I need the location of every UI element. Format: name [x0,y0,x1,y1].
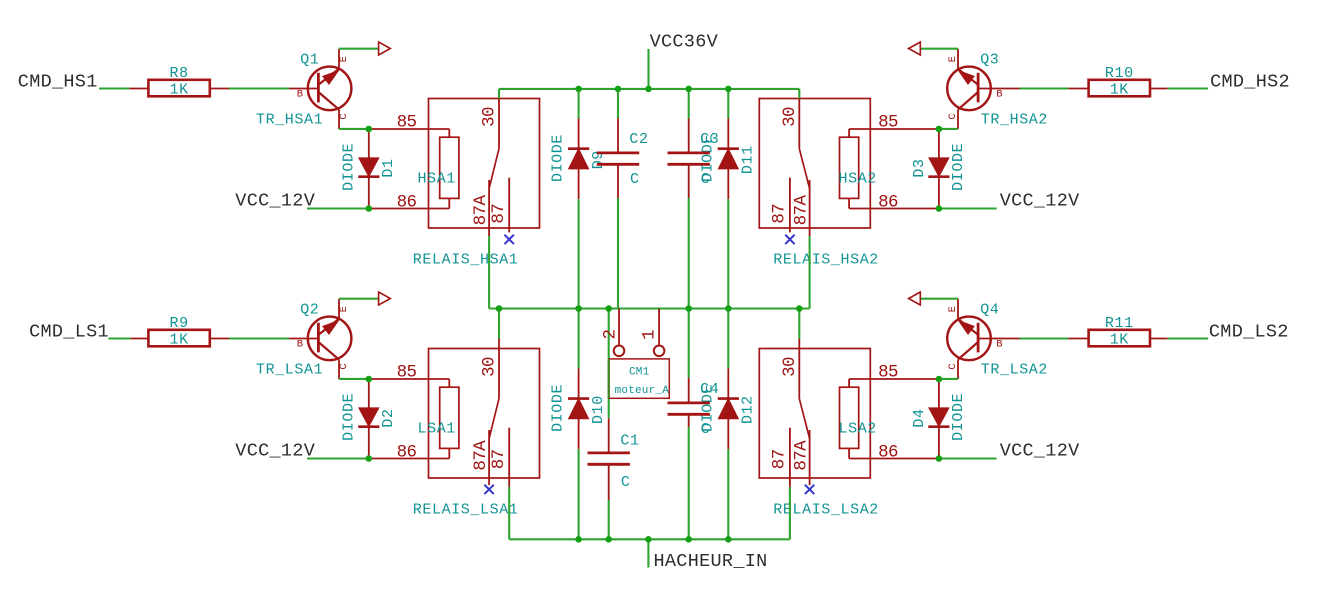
svg-text:D12: D12 [740,395,757,424]
svg-text:B: B [297,89,303,101]
svg-text:C2: C2 [629,131,648,148]
svg-text:VCC_12V: VCC_12V [235,441,315,462]
svg-text:B: B [996,89,1002,101]
svg-text:DIODE: DIODE [950,393,967,441]
svg-text:C: C [947,113,959,119]
svg-text:C4: C4 [700,381,719,398]
svg-text:C: C [630,171,640,188]
svg-text:TR_LSA2: TR_LSA2 [981,362,1048,379]
svg-text:DIODE: DIODE [340,393,357,441]
svg-text:VCC_12V: VCC_12V [235,191,315,212]
svg-text:1K: 1K [1110,81,1129,98]
svg-text:C1: C1 [620,433,639,450]
svg-text:HACHEUR_IN: HACHEUR_IN [654,551,768,572]
svg-text:85: 85 [878,113,898,133]
svg-text:E: E [338,56,350,62]
svg-text:E: E [947,306,959,312]
svg-text:TR_LSA1: TR_LSA1 [256,362,323,379]
svg-text:moteur_A: moteur_A [615,385,670,397]
svg-text:86: 86 [397,193,417,213]
svg-text:R10: R10 [1105,65,1134,82]
svg-text:R9: R9 [169,315,188,332]
svg-text:D1: D1 [380,158,397,177]
svg-text:85: 85 [397,113,417,133]
svg-text:C: C [621,474,631,491]
svg-text:R8: R8 [169,65,188,82]
svg-text:HSA2: HSA2 [839,171,877,188]
svg-text:VCC36V: VCC36V [650,32,718,53]
svg-text:CMD_LS1: CMD_LS1 [29,321,109,342]
svg-text:RELAIS_HSA2: RELAIS_HSA2 [773,251,879,268]
svg-text:1: 1 [639,330,659,340]
svg-text:1K: 1K [169,81,188,98]
svg-text:VCC_12V: VCC_12V [1000,191,1080,212]
svg-text:87: 87 [770,449,790,469]
svg-text:87: 87 [770,204,790,224]
svg-text:B: B [297,339,303,351]
svg-text:C: C [338,113,350,119]
svg-text:86: 86 [878,443,898,463]
svg-text:D3: D3 [911,158,928,177]
svg-text:Q4: Q4 [980,301,999,318]
svg-text:TR_HSA1: TR_HSA1 [256,112,323,129]
svg-text:Q2: Q2 [300,301,319,318]
svg-text:87A: 87A [792,440,812,471]
svg-text:87: 87 [489,204,509,224]
svg-text:E: E [947,56,959,62]
svg-text:RELAIS_LSA1: RELAIS_LSA1 [413,501,519,518]
svg-text:87A: 87A [792,195,812,226]
svg-text:CM1: CM1 [629,366,650,378]
svg-text:C: C [701,421,711,438]
svg-text:30: 30 [780,107,800,127]
svg-text:TR_HSA2: TR_HSA2 [981,112,1048,129]
svg-text:C3: C3 [700,131,719,148]
svg-text:87: 87 [489,449,509,469]
svg-text:DIODE: DIODE [550,134,567,182]
svg-text:CMD_HS2: CMD_HS2 [1210,71,1290,92]
svg-text:85: 85 [878,363,898,383]
svg-text:85: 85 [397,363,417,383]
svg-text:C: C [701,171,711,188]
svg-text:Q3: Q3 [980,51,999,68]
svg-text:D4: D4 [911,408,928,427]
svg-text:VCC_12V: VCC_12V [1000,441,1080,462]
svg-text:86: 86 [397,443,417,463]
svg-text:Q1: Q1 [300,51,319,68]
svg-text:DIODE: DIODE [950,143,967,191]
svg-text:CMD_LS2: CMD_LS2 [1209,321,1289,342]
svg-text:E: E [338,306,350,312]
svg-text:C: C [338,363,350,369]
svg-text:C: C [947,363,959,369]
svg-text:86: 86 [878,193,898,213]
svg-text:30: 30 [480,107,500,127]
svg-text:30: 30 [780,357,800,377]
svg-text:2: 2 [601,329,621,339]
svg-text:1K: 1K [1110,331,1129,348]
svg-text:30: 30 [480,357,500,377]
svg-text:LSA1: LSA1 [418,421,456,438]
svg-text:CMD_HS1: CMD_HS1 [18,71,98,92]
svg-text:D2: D2 [380,408,397,427]
svg-text:LSA2: LSA2 [839,421,877,438]
svg-text:R11: R11 [1105,315,1134,332]
svg-text:DIODE: DIODE [550,384,567,432]
svg-text:D11: D11 [740,145,757,174]
svg-text:1K: 1K [169,331,188,348]
svg-text:DIODE: DIODE [340,143,357,191]
svg-text:RELAIS_HSA1: RELAIS_HSA1 [413,251,519,268]
svg-text:D10: D10 [590,395,607,424]
svg-text:HSA1: HSA1 [418,171,456,188]
svg-text:B: B [996,339,1002,351]
